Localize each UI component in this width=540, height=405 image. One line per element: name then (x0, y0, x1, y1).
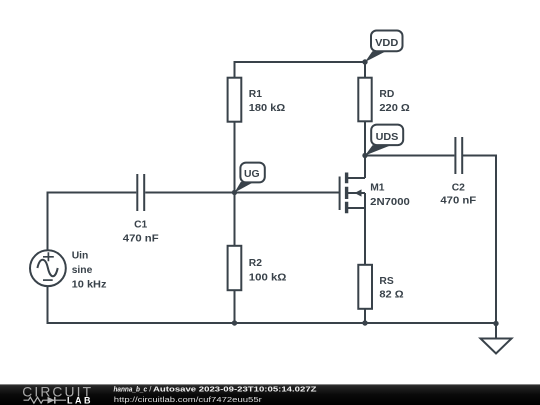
node UDS callout (365, 125, 403, 156)
svg-text:10 kHz: 10 kHz (72, 280, 107, 291)
node UG callout (235, 163, 265, 193)
resistor R1 (228, 78, 286, 122)
svg-text:M1: M1 (370, 182, 385, 193)
wire bottom ground rail (48, 322, 497, 324)
wire top rail (235, 61, 366, 63)
wire R1 bottom to gate rail (234, 122, 236, 193)
svg-text:82 Ω: 82 Ω (379, 290, 403, 301)
wire MOSFET source to RS top (364, 208, 366, 265)
svg-text:sine: sine (72, 265, 93, 276)
svg-text:Uin: Uin (72, 251, 89, 262)
junction dot R2 bottom (232, 320, 237, 325)
wire C2 right plate to right rail (462, 155, 497, 157)
ground (481, 324, 512, 354)
svg-text:http://circuitlab.com/cuf7472e: http://circuitlab.com/cuf7472euu55r (114, 395, 263, 404)
wire RS bottom to ground rail (364, 309, 366, 324)
node VDD callout (365, 31, 403, 63)
capacitor C2 (440, 137, 476, 207)
svg-text:hanna_b_c / Autosave 2023-09-2: hanna_b_c / Autosave 2023-09-23T10:05:14… (114, 384, 317, 393)
svg-text:R1: R1 (249, 89, 262, 100)
svg-text:C2: C2 (452, 182, 465, 193)
svg-text:UG: UG (244, 169, 260, 180)
junction dot UDS node (362, 153, 367, 158)
svg-text:VDD: VDD (375, 38, 399, 49)
wire RD bottom to UDS node (364, 121, 366, 156)
resistor R2 (228, 246, 287, 290)
capacitor C1 (123, 174, 159, 245)
svg-text:470 nF: 470 nF (123, 234, 159, 245)
svg-text:220 Ω: 220 Ω (379, 103, 409, 114)
junction dot VDD node (362, 59, 367, 64)
junction dot ground node (493, 321, 498, 326)
svg-text:UDS: UDS (376, 132, 399, 143)
transistor M1 (340, 155, 410, 214)
svg-text:RD: RD (379, 89, 394, 100)
wire left rail lower (source bottom lead) (47, 287, 49, 325)
svg-text:100 kΩ: 100 kΩ (249, 272, 287, 283)
footer logo diode (48, 397, 55, 404)
junction dot UG node (232, 190, 237, 195)
svg-text:R2: R2 (249, 258, 262, 269)
wire left rail upper (source top lead) (47, 192, 49, 251)
resistor RD (358, 78, 410, 122)
wire RD top stub (364, 61, 366, 78)
wire R2 bottom to ground rail (234, 290, 236, 323)
wire R1 top stub (234, 61, 236, 78)
wire right rail vertical (495, 155, 497, 324)
wire R2 top stub (234, 193, 236, 247)
svg-text:LAB: LAB (67, 395, 91, 405)
voltage source Uin (V1) (30, 250, 107, 290)
footer logo squiggle (24, 397, 67, 403)
wire gate rail left of C1 (48, 192, 137, 194)
junction dot RS bottom (362, 320, 367, 325)
resistor RS (358, 265, 403, 309)
wire output UDS to C2 left plate (365, 155, 454, 157)
wire C1 right plate to MOSFET gate (145, 192, 339, 194)
svg-text:RS: RS (379, 276, 393, 287)
footer logo CIRCUIT (22, 385, 91, 400)
svg-text:2N7000: 2N7000 (370, 197, 410, 208)
svg-text:C1: C1 (134, 220, 147, 231)
svg-text:180 kΩ: 180 kΩ (249, 103, 285, 114)
svg-text:470 nF: 470 nF (440, 196, 476, 207)
